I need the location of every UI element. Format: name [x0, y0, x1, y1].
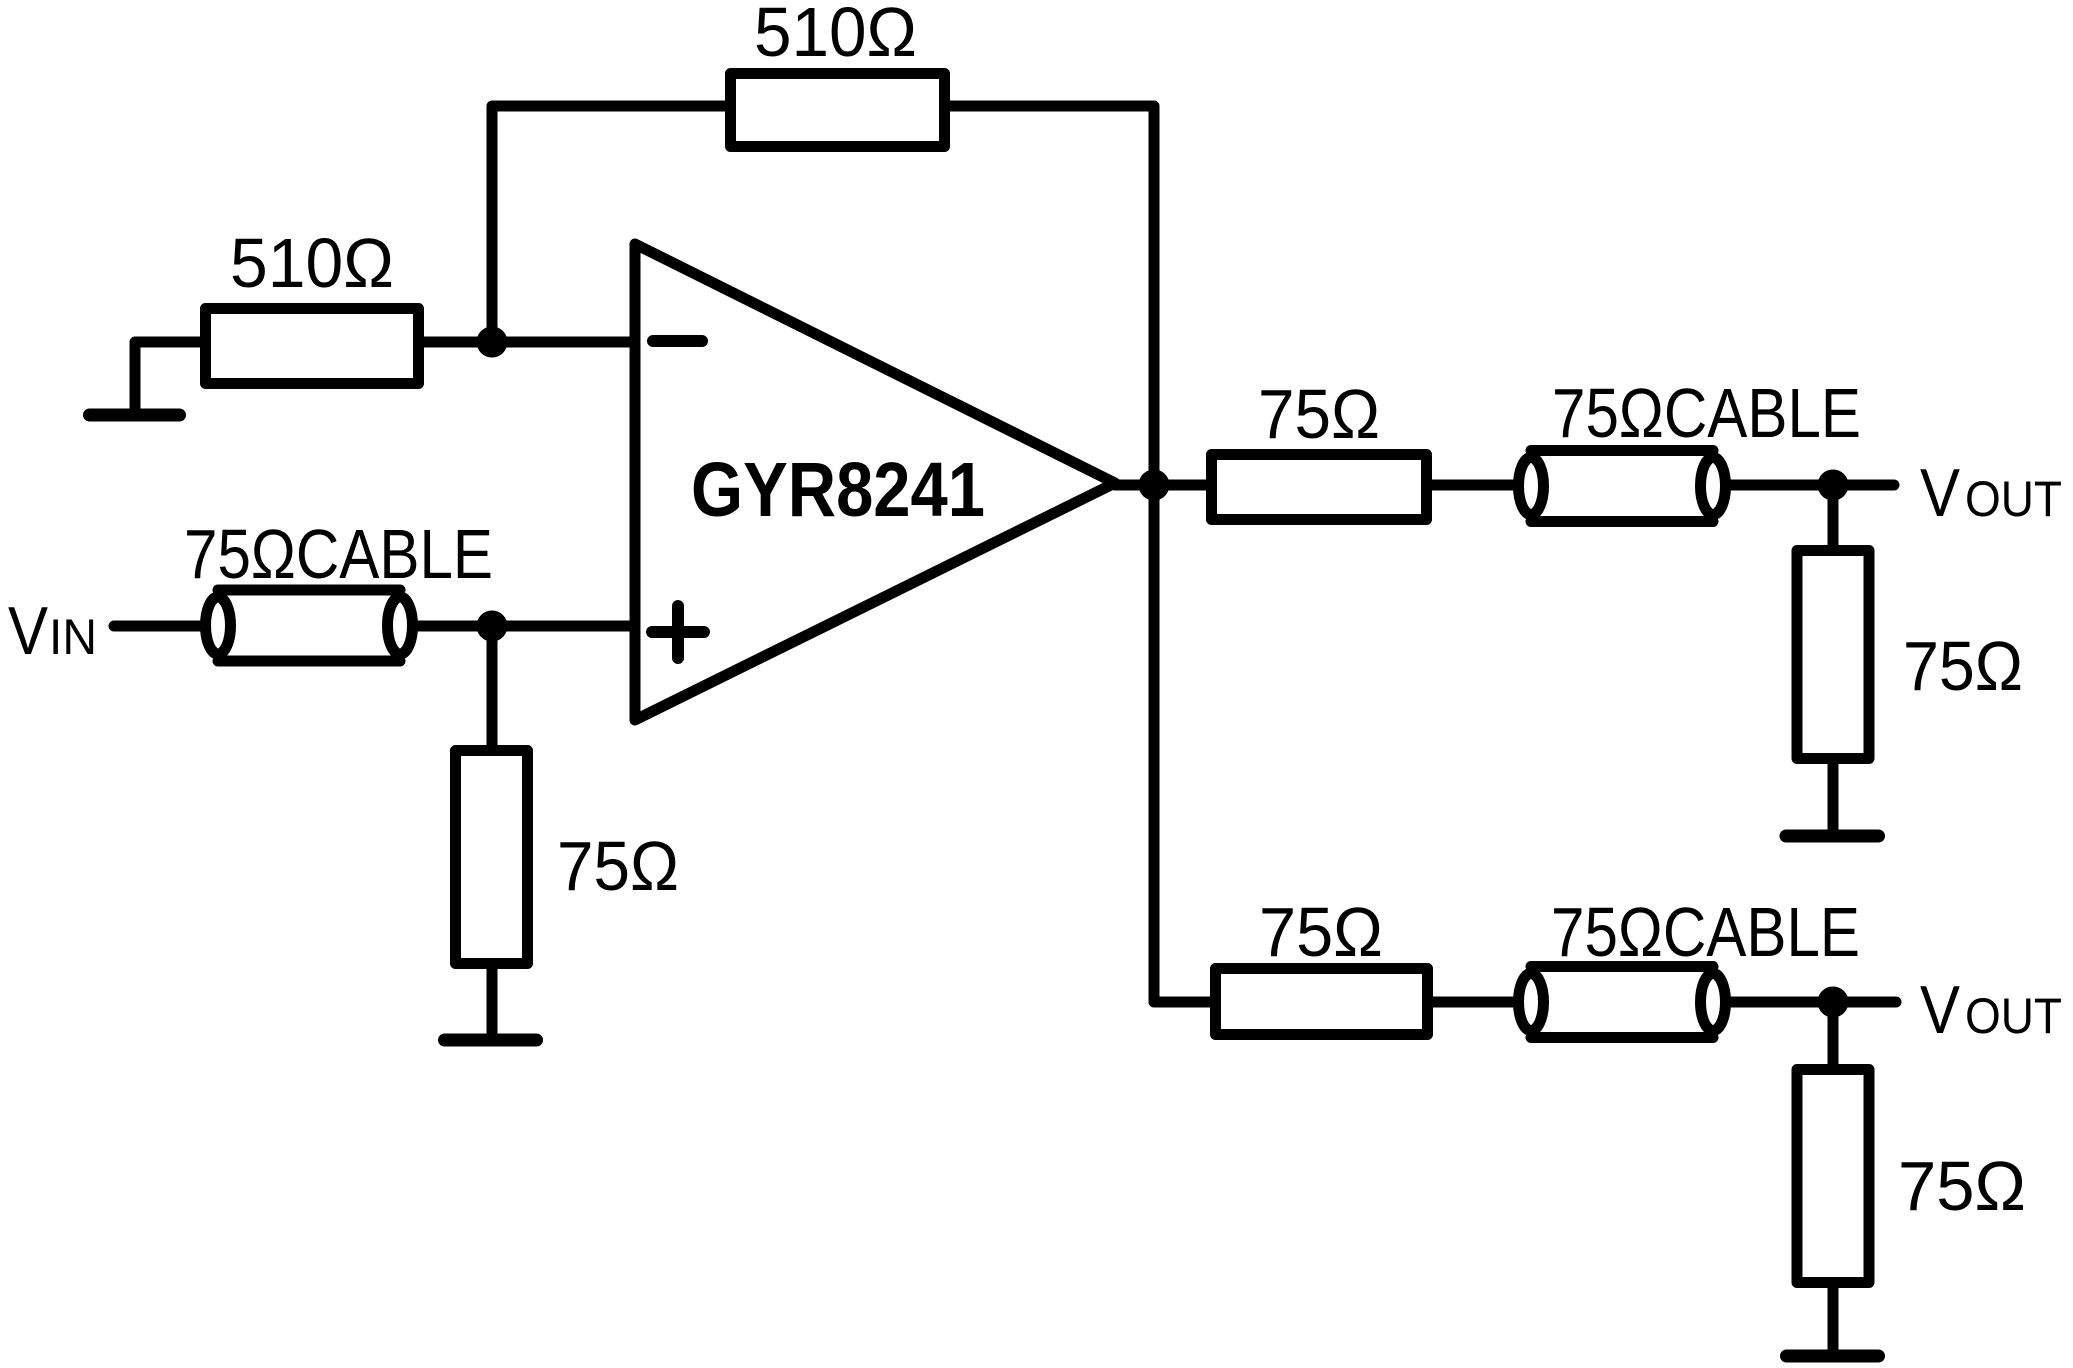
svg-text:75Ω: 75Ω — [1898, 1147, 2026, 1225]
svg-text:75Ω: 75Ω — [1903, 627, 2023, 705]
svg-text:OUT: OUT — [1965, 988, 2062, 1044]
svg-text:75Ω: 75Ω — [1259, 893, 1383, 971]
svg-text:V: V — [8, 593, 49, 669]
svg-text:OUT: OUT — [1965, 471, 2062, 527]
svg-text:75ΩCABLE: 75ΩCABLE — [1552, 374, 1861, 452]
svg-text:510Ω: 510Ω — [754, 0, 917, 71]
svg-text:75ΩCABLE: 75ΩCABLE — [184, 515, 493, 593]
svg-text:V: V — [1920, 972, 1961, 1048]
svg-text:75ΩCABLE: 75ΩCABLE — [1551, 893, 1860, 971]
svg-text:GYR8241: GYR8241 — [691, 447, 985, 533]
svg-text:75Ω: 75Ω — [557, 827, 679, 905]
svg-text:75Ω: 75Ω — [1258, 375, 1380, 453]
svg-text:IN: IN — [49, 609, 97, 665]
svg-text:V: V — [1920, 455, 1961, 531]
svg-text:510Ω: 510Ω — [230, 224, 394, 302]
